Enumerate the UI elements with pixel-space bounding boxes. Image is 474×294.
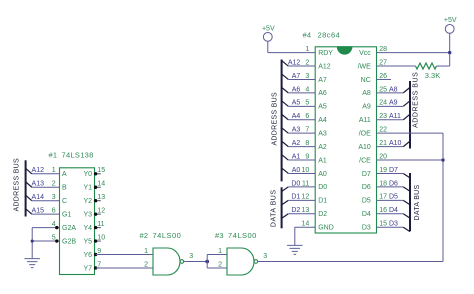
svg-text:ADDRESS BUS: ADDRESS BUS [412, 72, 419, 128]
svg-text:ADDRESS BUS: ADDRESS BUS [271, 92, 278, 146]
svg-text:A2: A2 [292, 140, 301, 147]
svg-text:3.3K: 3.3K [425, 71, 440, 80]
svg-text:12: 12 [302, 194, 310, 201]
svg-text:12: 12 [97, 208, 105, 215]
svg-text:A9: A9 [362, 104, 371, 111]
svg-text:D7: D7 [389, 167, 398, 174]
svg-text:5: 5 [52, 234, 56, 241]
svg-text:NC: NC [361, 77, 371, 84]
svg-text:A11: A11 [359, 117, 371, 124]
svg-text:/WE: /WE [358, 63, 372, 70]
svg-text:A5: A5 [318, 104, 327, 111]
svg-text:74LS138: 74LS138 [62, 151, 94, 160]
svg-text:21: 21 [379, 140, 387, 147]
svg-text:4: 4 [305, 86, 309, 93]
svg-text:DATA BUS: DATA BUS [271, 190, 278, 228]
svg-text:2: 2 [218, 261, 222, 268]
svg-text:D6: D6 [362, 184, 371, 191]
svg-text:D0: D0 [318, 184, 327, 191]
svg-text:G2B: G2B [62, 238, 76, 245]
svg-text:13: 13 [302, 207, 310, 214]
svg-text:A5: A5 [292, 100, 301, 107]
svg-text:26: 26 [379, 73, 387, 80]
svg-text:DATA BUS: DATA BUS [414, 184, 421, 220]
svg-text:6: 6 [305, 113, 309, 120]
svg-text:20: 20 [379, 153, 387, 160]
svg-text:G1: G1 [62, 211, 71, 218]
svg-text:18: 18 [379, 180, 387, 187]
svg-text:A8: A8 [362, 90, 371, 97]
svg-text:1: 1 [218, 248, 222, 255]
svg-text:A2: A2 [318, 144, 327, 151]
svg-text:3: 3 [305, 73, 309, 80]
svg-text:D1: D1 [291, 194, 300, 201]
svg-text:3: 3 [263, 253, 267, 260]
svg-text:#2: #2 [140, 231, 149, 240]
svg-text:28: 28 [379, 46, 387, 53]
svg-text:A4: A4 [318, 117, 327, 124]
svg-text:G2A: G2A [62, 225, 76, 232]
svg-text:/OE: /OE [359, 130, 371, 137]
svg-text:11: 11 [97, 221, 104, 228]
svg-text:Y6: Y6 [83, 252, 92, 259]
svg-text:Y7: Y7 [83, 265, 92, 272]
svg-text:#1: #1 [49, 151, 58, 160]
svg-text:A12: A12 [32, 167, 45, 174]
svg-text:A3: A3 [292, 127, 301, 134]
svg-text:#4: #4 [303, 30, 312, 39]
svg-text:74LS00: 74LS00 [153, 231, 182, 240]
svg-text:9: 9 [97, 248, 101, 255]
svg-text:2: 2 [305, 59, 309, 66]
svg-text:D3: D3 [389, 221, 398, 228]
svg-text:D0: D0 [291, 180, 300, 187]
svg-text:Y5: Y5 [83, 238, 92, 245]
svg-text:A0: A0 [318, 171, 327, 178]
svg-text:7: 7 [305, 127, 309, 134]
svg-text:A15: A15 [32, 208, 45, 215]
svg-text:10: 10 [302, 167, 310, 174]
svg-text:8: 8 [305, 140, 309, 147]
svg-text:/CE: /CE [359, 157, 371, 164]
svg-text:Y2: Y2 [83, 198, 92, 205]
svg-text:A10: A10 [389, 140, 402, 147]
svg-text:A8: A8 [389, 86, 398, 93]
svg-text:Y0: Y0 [83, 171, 92, 178]
svg-text:D3: D3 [362, 224, 371, 231]
svg-text:D6: D6 [389, 180, 398, 187]
svg-text:C: C [62, 198, 67, 205]
svg-text:17: 17 [379, 194, 387, 201]
svg-text:ADDRESS BUS: ADDRESS BUS [14, 158, 21, 212]
svg-text:A12: A12 [288, 59, 301, 66]
svg-text:A12: A12 [318, 63, 331, 70]
svg-text:+5V: +5V [262, 25, 275, 32]
svg-text:4: 4 [52, 221, 56, 228]
svg-text:D4: D4 [362, 211, 371, 218]
svg-text:Y3: Y3 [83, 211, 92, 218]
svg-text:10: 10 [97, 234, 105, 241]
svg-text:9: 9 [305, 153, 309, 160]
svg-text:A11: A11 [389, 113, 401, 120]
svg-text:A14: A14 [32, 194, 45, 201]
svg-text:23: 23 [379, 113, 387, 120]
svg-text:3: 3 [52, 194, 56, 201]
svg-text:15: 15 [97, 167, 105, 174]
svg-text:13: 13 [97, 194, 105, 201]
svg-text:+5V: +5V [444, 17, 457, 24]
svg-text:A10: A10 [358, 144, 371, 151]
svg-text:74LS00: 74LS00 [228, 231, 257, 240]
svg-text:A7: A7 [318, 77, 327, 84]
svg-text:B: B [62, 185, 67, 192]
svg-text:2: 2 [144, 261, 148, 268]
svg-text:19: 19 [379, 167, 387, 174]
svg-text:1: 1 [305, 46, 309, 53]
svg-text:D5: D5 [389, 194, 398, 201]
svg-text:6: 6 [52, 208, 56, 215]
svg-text:A1: A1 [292, 153, 301, 160]
svg-text:RDY: RDY [318, 50, 333, 57]
svg-text:22: 22 [379, 127, 387, 134]
svg-text:A1: A1 [318, 157, 327, 164]
svg-text:D2: D2 [291, 207, 300, 214]
svg-text:D1: D1 [318, 198, 327, 205]
svg-text:D7: D7 [362, 171, 371, 178]
svg-text:A13: A13 [32, 181, 45, 188]
svg-text:A0: A0 [292, 167, 301, 174]
svg-text:A3: A3 [318, 130, 327, 137]
svg-text:14: 14 [97, 181, 105, 188]
svg-text:1: 1 [52, 167, 56, 174]
svg-text:D4: D4 [389, 207, 398, 214]
svg-text:Vcc: Vcc [359, 50, 371, 57]
svg-text:A4: A4 [292, 113, 301, 120]
svg-text:D2: D2 [318, 211, 327, 218]
svg-text:A: A [62, 171, 67, 178]
svg-text:GND: GND [318, 224, 334, 231]
svg-text:Y4: Y4 [83, 225, 92, 232]
svg-text:A6: A6 [318, 90, 327, 97]
svg-text:1: 1 [144, 248, 148, 255]
svg-text:A6: A6 [292, 86, 301, 93]
svg-text:16: 16 [379, 207, 387, 214]
svg-text:A7: A7 [292, 73, 301, 80]
svg-text:5: 5 [305, 100, 309, 107]
svg-text:27: 27 [379, 59, 387, 66]
svg-text:14: 14 [302, 221, 310, 228]
svg-text:D5: D5 [362, 198, 371, 205]
svg-text:25: 25 [379, 86, 387, 93]
svg-text:28c64: 28c64 [318, 30, 341, 39]
svg-text:Y1: Y1 [83, 185, 92, 192]
svg-text:#3: #3 [215, 231, 224, 240]
svg-text:7: 7 [97, 261, 101, 268]
svg-text:15: 15 [379, 221, 387, 228]
svg-text:A9: A9 [389, 100, 398, 107]
svg-text:11: 11 [302, 180, 309, 187]
svg-text:24: 24 [379, 100, 387, 107]
svg-text:3: 3 [189, 253, 193, 260]
svg-text:2: 2 [52, 181, 56, 188]
